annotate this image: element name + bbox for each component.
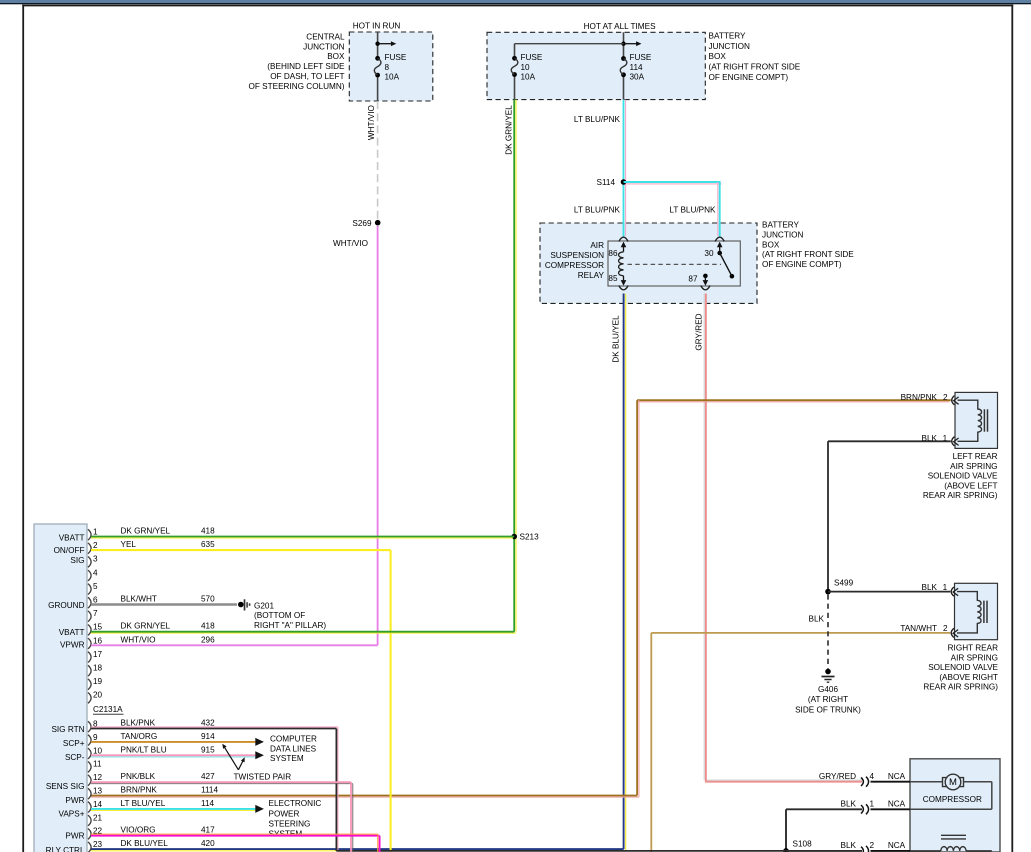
svg-text:4: 4 (870, 772, 875, 781)
compressor winding core lines (941, 834, 966, 836)
pin 10 (88, 748, 91, 759)
svg-text:STEERING: STEERING (269, 819, 311, 828)
arrow: BJB feed to other circuits (624, 43, 637, 45)
right rear air spring solenoid valve box (955, 583, 998, 639)
relay coil winding (619, 252, 624, 276)
module connector block C2131A (left) (34, 524, 87, 852)
svg-text:296: 296 (201, 635, 215, 644)
wire YEL vertical to bottom (390, 550, 392, 852)
pin 7 (88, 611, 91, 622)
svg-text:2: 2 (943, 393, 948, 402)
compressor winding (bottom) (910, 850, 941, 852)
arrow to electronic power steering (255, 805, 264, 813)
svg-text:VBATT: VBATT (59, 628, 85, 637)
svg-text:YEL: YEL (121, 540, 137, 549)
svg-text:BOX: BOX (327, 52, 345, 61)
svg-text:LEFT REAR: LEFT REAR (953, 452, 998, 461)
wire BLK LR valve pin1 to S499 branch (828, 440, 951, 442)
svg-text:SOLENOID VALVE: SOLENOID VALVE (928, 663, 998, 672)
wire TAN/ORG row 9 (91, 741, 255, 743)
twisted pair annotation (224, 746, 239, 770)
svg-text:BATTERY: BATTERY (762, 221, 800, 230)
svg-text:15: 15 (93, 623, 103, 632)
pin 16 (88, 638, 91, 649)
battery junction box (relay) dashed box (540, 223, 757, 303)
svg-text:11: 11 (93, 760, 102, 769)
relay connector arc pin 30 (715, 237, 724, 241)
svg-text:BLK: BLK (841, 841, 857, 850)
svg-text:LT BLU/PNK: LT BLU/PNK (574, 115, 621, 124)
svg-text:BLK: BLK (809, 614, 825, 623)
wire: BJB feed vertical (fuse 114) (623, 32, 625, 58)
svg-text:2: 2 (870, 841, 875, 850)
svg-text:4: 4 (93, 568, 98, 577)
svg-text:2: 2 (943, 624, 948, 633)
svg-text:POWER: POWER (269, 809, 300, 818)
pin 5 (88, 584, 91, 595)
svg-text:WHT/VIO: WHT/VIO (333, 239, 368, 248)
wire: BJB horizontal feed to fuse 10 (515, 43, 624, 45)
wire WHT/VIO row 16 (91, 644, 378, 646)
wire: fuse 10 vertical (514, 44, 516, 59)
wire VIO/ORG vertical (377, 834, 379, 852)
RR valve pin 2 connector arc (951, 628, 954, 637)
wire BRN/PNK vertical to row 13 (638, 400, 640, 797)
top toolbar bar (0, 0, 1031, 3)
svg-text:BRN/PNK: BRN/PNK (901, 393, 938, 402)
svg-text:(BEHIND LEFT SIDE: (BEHIND LEFT SIDE (267, 62, 345, 71)
fuse F114 30A (621, 56, 626, 61)
svg-text:FUSE: FUSE (385, 53, 407, 62)
svg-text:SCP+: SCP+ (63, 739, 85, 748)
pin 20 (88, 693, 91, 704)
fuse F10 10A (512, 56, 517, 61)
svg-text:ELECTRONIC: ELECTRONIC (269, 799, 322, 808)
svg-text:COMPRESSOR: COMPRESSOR (545, 261, 604, 270)
compressor motor wiring loop (910, 781, 943, 783)
relay coil arrow up (pin 86) (623, 247, 625, 252)
wire TAN/WHT RR valve pin 2 (651, 632, 950, 634)
svg-text:OF ENGINE COMPT): OF ENGINE COMPT) (709, 73, 789, 82)
svg-text:REAR AIR SPRING): REAR AIR SPRING) (923, 491, 998, 500)
svg-text:OF ENGINE COMPT): OF ENGINE COMPT) (762, 260, 842, 269)
svg-text:RIGHT REAR: RIGHT REAR (948, 644, 998, 653)
svg-text:VBATT: VBATT (59, 534, 85, 543)
svg-text:REAR AIR SPRING): REAR AIR SPRING) (923, 683, 998, 692)
wire DK BLU/YEL vertical relay to row 23 (625, 294, 627, 851)
pin 15 (88, 625, 91, 636)
svg-text:PNK/LT BLU: PNK/LT BLU (121, 745, 167, 754)
svg-text:JUNCTION: JUNCTION (709, 42, 750, 51)
svg-text:6: 6 (93, 596, 98, 605)
svg-text:VAPS+: VAPS+ (58, 810, 84, 819)
svg-text:14: 14 (93, 800, 103, 809)
svg-text:SOLENOID VALVE: SOLENOID VALVE (928, 472, 998, 481)
node: CJB tap junction (375, 42, 379, 46)
svg-text:DATA LINES: DATA LINES (270, 744, 317, 753)
svg-text:1: 1 (943, 434, 948, 443)
svg-text:FUSE: FUSE (521, 53, 543, 62)
svg-text:NCA: NCA (888, 841, 906, 850)
node: BJB tap junction (621, 42, 625, 46)
relay inner box (608, 241, 740, 286)
svg-text:570: 570 (201, 595, 215, 604)
pin 12 (88, 775, 91, 786)
pin 2 (88, 543, 91, 554)
pin 6 (88, 597, 91, 608)
wire BLK dashed to G406 (827, 594, 829, 668)
wire PNK/BLK vertical (352, 784, 354, 852)
svg-text:SCP-: SCP- (65, 753, 85, 762)
svg-text:BLK: BLK (922, 434, 938, 443)
left rear air spring solenoid valve box (955, 392, 998, 448)
svg-text:(AT RIGHT FRONT SIDE: (AT RIGHT FRONT SIDE (709, 63, 801, 72)
splice S108 (783, 848, 789, 852)
svg-text:BLK: BLK (841, 800, 857, 809)
arrow to computer data lines (255, 738, 264, 746)
svg-text:LT BLU/YEL: LT BLU/YEL (121, 799, 166, 808)
svg-text:18: 18 (93, 664, 103, 673)
svg-text:TAN/WHT: TAN/WHT (900, 624, 937, 633)
central junction box (CJB) dashed box (349, 32, 433, 101)
svg-text:7: 7 (93, 609, 98, 618)
LR valve pin 1 connector arc (952, 437, 955, 446)
ground G201 symbol (238, 602, 244, 608)
ground G406 symbol (825, 669, 831, 675)
pin 1 (88, 529, 91, 540)
svg-text:BLK/WHT: BLK/WHT (121, 595, 157, 604)
wire BLK/PNK row 8 (91, 726, 338, 728)
svg-text:BLK: BLK (922, 583, 938, 592)
wire BLK/PNK vertical (337, 727, 339, 850)
arrow to computer data lines (2) (255, 751, 264, 759)
pin 19 (88, 679, 91, 690)
wire GRY/RED horizontal to compressor pin 4 (707, 779, 862, 781)
wire BRN/PNK horizontal row 13 (91, 796, 639, 798)
svg-text:(ABOVE LEFT: (ABOVE LEFT (944, 481, 997, 490)
relay internal dashed link (628, 263, 722, 265)
svg-text:8: 8 (385, 63, 390, 72)
svg-text:17: 17 (93, 650, 103, 659)
svg-text:635: 635 (201, 540, 215, 549)
connector C pin 1 (NCA) (861, 804, 869, 814)
wire DK GRN/YEL row 15 (91, 632, 516, 634)
connector C pin 2 (NCA) (861, 846, 869, 852)
pin 17 (88, 652, 91, 663)
svg-text:23: 23 (93, 840, 103, 849)
battery junction box (fuse box) dashed box (487, 32, 705, 99)
relay switch arrow up to pin 30 (719, 247, 721, 253)
wire DK GRN/YEL vertical (fuse 10 to S213 to pin 15) (515, 100, 517, 632)
svg-text:GRY/RED: GRY/RED (819, 772, 856, 781)
wire BLK vertical to S499 (827, 441, 829, 591)
svg-text:NCA: NCA (888, 772, 906, 781)
svg-text:VIO/ORG: VIO/ORG (121, 826, 156, 835)
wire DK GRN/YEL row 1 (91, 537, 513, 539)
svg-text:418: 418 (201, 622, 215, 631)
wire WHT/VIO solid violet vertical to pin 16 (377, 226, 379, 645)
wire VIO/ORG row 22 (91, 833, 378, 835)
svg-text:S213: S213 (520, 533, 540, 542)
svg-text:COMPRESSOR: COMPRESSOR (923, 795, 982, 804)
svg-text:10: 10 (521, 63, 531, 72)
svg-text:SIDE OF TRUNK): SIDE OF TRUNK) (795, 705, 861, 714)
pin 8 (88, 721, 91, 732)
svg-text:SUSPENSION: SUSPENSION (550, 251, 604, 260)
svg-text:5: 5 (93, 582, 98, 591)
svg-text:FUSE: FUSE (630, 53, 652, 62)
wire BLK S499 to RR valve pin 1 (828, 591, 950, 593)
svg-text:GROUND: GROUND (48, 601, 84, 610)
wire LT BLU/PNK vertical (fuse 114 to S114 to relay 86) (625, 100, 627, 236)
relay connector arc pin 86 (619, 237, 628, 241)
svg-text:DK GRN/YEL: DK GRN/YEL (505, 105, 514, 155)
svg-text:9: 9 (93, 733, 98, 742)
LR valve coil (958, 400, 982, 441)
svg-text:RIGHT "A" PILLAR): RIGHT "A" PILLAR) (254, 621, 326, 630)
svg-text:OF DASH, TO LEFT: OF DASH, TO LEFT (270, 72, 344, 81)
svg-text:PNK/BLK: PNK/BLK (121, 772, 156, 781)
wire GRY/RED vertical relay to compressor (703, 294, 705, 781)
relay switch arm pin 30 (717, 251, 722, 256)
svg-text:1: 1 (93, 528, 98, 537)
svg-text:JUNCTION: JUNCTION (762, 231, 803, 240)
page frame border (22, 5, 24, 852)
svg-text:S108: S108 (793, 840, 813, 849)
svg-text:TWISTED PAIR: TWISTED PAIR (234, 773, 292, 782)
compressor motor symbol (945, 774, 961, 790)
svg-text:VPWR: VPWR (60, 641, 85, 650)
svg-text:87: 87 (688, 275, 698, 284)
wire TAN/WHT vertical to bottom (650, 633, 652, 852)
svg-text:DK GRN/YEL: DK GRN/YEL (121, 622, 171, 631)
svg-text:S499: S499 (834, 579, 854, 588)
pin 3 (88, 557, 91, 568)
svg-text:AIR SPRING: AIR SPRING (951, 653, 998, 662)
pin 14 (88, 802, 91, 813)
svg-text:LT BLU/PNK: LT BLU/PNK (669, 206, 716, 215)
svg-text:BATTERY: BATTERY (709, 32, 747, 41)
relay connector arc pin 85 (619, 286, 628, 290)
svg-text:WHT/VIO: WHT/VIO (367, 105, 376, 140)
svg-text:DK GRN/YEL: DK GRN/YEL (121, 527, 171, 536)
splice S114 (621, 179, 627, 185)
svg-text:SENS SIG: SENS SIG (46, 782, 85, 791)
svg-text:85: 85 (608, 274, 618, 283)
svg-text:DK BLU/YEL: DK BLU/YEL (121, 839, 169, 848)
svg-text:914: 914 (201, 732, 215, 741)
svg-text:COMPUTER: COMPUTER (270, 735, 317, 744)
svg-text:RLY CTRL: RLY CTRL (46, 846, 85, 852)
pin 9 (88, 735, 91, 746)
svg-text:TAN/ORG: TAN/ORG (121, 732, 158, 741)
svg-text:G201: G201 (254, 601, 274, 610)
svg-text:SIG: SIG (70, 556, 84, 565)
svg-text:BOX: BOX (762, 240, 780, 249)
connector C pin 4 (NCA) (861, 777, 869, 787)
svg-text:418: 418 (201, 527, 215, 536)
wire PNK/LT BLU row 10 (91, 756, 255, 758)
svg-text:427: 427 (201, 772, 215, 781)
RR valve pin 1 connector arc (951, 587, 954, 596)
svg-text:BLK/PNK: BLK/PNK (121, 719, 156, 728)
pin 4 (88, 570, 91, 581)
svg-text:LT BLU/PNK: LT BLU/PNK (574, 206, 621, 215)
wire: CJB feed vertical (377, 32, 379, 58)
pin 23 (88, 842, 91, 852)
arrow: CJB feed to other circuits (378, 43, 392, 45)
svg-text:SYSTEM: SYSTEM (270, 754, 304, 763)
svg-text:30A: 30A (630, 73, 645, 82)
svg-text:PWR: PWR (65, 796, 84, 805)
svg-text:3: 3 (93, 555, 98, 564)
RR valve coil (957, 592, 981, 633)
svg-text:13: 13 (93, 787, 103, 796)
svg-text:ON/OFF: ON/OFF (54, 546, 85, 555)
svg-text:1: 1 (943, 583, 948, 592)
svg-text:BOX: BOX (709, 52, 727, 61)
wire WHT/VIO dashed (white) segment (377, 101, 379, 219)
svg-text:OF STEERING COLUMN): OF STEERING COLUMN) (249, 82, 345, 91)
svg-text:PWR: PWR (65, 831, 84, 840)
wire PNK/BLK row 12 (91, 783, 353, 785)
fuse F8 10A (375, 56, 380, 61)
wire LT BLU/PNK horizontal S114 to right branch (626, 183, 722, 185)
relay pin 87 contact (703, 274, 708, 279)
svg-text:10A: 10A (521, 73, 536, 82)
svg-text:432: 432 (201, 719, 215, 728)
svg-text:420: 420 (201, 839, 215, 848)
svg-text:S269: S269 (352, 219, 372, 228)
svg-text:G406: G406 (818, 685, 838, 694)
svg-text:19: 19 (93, 677, 103, 686)
svg-text:HOT IN RUN: HOT IN RUN (353, 22, 401, 31)
svg-text:AIR: AIR (590, 241, 604, 250)
wire LT BLU/YEL row 14 (91, 809, 255, 811)
svg-text:M: M (949, 777, 957, 788)
svg-text:SIG RTN: SIG RTN (51, 725, 84, 734)
LR valve pin 2 connector arc (952, 396, 955, 405)
svg-text:CENTRAL: CENTRAL (306, 32, 345, 41)
svg-text:DK BLU/YEL: DK BLU/YEL (612, 315, 621, 363)
svg-text:417: 417 (201, 826, 215, 835)
svg-text:HOT AT ALL TIMES: HOT AT ALL TIMES (584, 22, 656, 31)
svg-text:RELAY: RELAY (578, 271, 605, 280)
splice S213 (511, 534, 517, 540)
svg-text:10A: 10A (385, 73, 400, 82)
pin 18 (88, 665, 91, 676)
wire LT BLU/PNK vertical right branch to relay 30 (717, 182, 719, 236)
wire YEL row 2 (91, 549, 391, 551)
svg-text:21: 21 (93, 813, 103, 822)
svg-text:(BOTTOM OF: (BOTTOM OF (254, 611, 305, 620)
pin 21 (88, 815, 91, 826)
svg-text:16: 16 (93, 636, 103, 645)
pin 11 (88, 762, 91, 773)
relay coil arrow down (pin 85) (623, 276, 625, 281)
svg-text:WHT/VIO: WHT/VIO (121, 635, 156, 644)
svg-text:114: 114 (630, 63, 643, 72)
svg-text:10: 10 (93, 746, 103, 755)
splice S499 (825, 589, 831, 595)
svg-text:86: 86 (608, 249, 618, 258)
pin 13 (88, 788, 91, 799)
svg-text:AIR SPRING: AIR SPRING (950, 462, 997, 471)
wire BLK/WHT row 6 to G201 (91, 603, 237, 605)
svg-text:30: 30 (704, 249, 714, 258)
svg-text:12: 12 (93, 773, 103, 782)
wire BLK S108 to compressor pin 2 (786, 850, 862, 852)
svg-text:S114: S114 (596, 178, 615, 187)
compressor box (910, 759, 1000, 852)
wire BLK/PNK bottom run to S108 (336, 850, 786, 852)
splice S269 (375, 220, 381, 226)
wire BLK compressor pin 1 to S108 (786, 808, 862, 810)
svg-text:915: 915 (201, 745, 215, 754)
relay connector arc pin 87 (701, 286, 710, 290)
svg-text:1: 1 (870, 800, 875, 809)
svg-text:NCA: NCA (888, 800, 906, 809)
svg-text:(AT RIGHT FRONT SIDE: (AT RIGHT FRONT SIDE (762, 250, 854, 259)
svg-text:20: 20 (93, 691, 103, 700)
svg-text:1114: 1114 (201, 786, 218, 795)
svg-text:114: 114 (201, 799, 214, 808)
svg-text:C2131A: C2131A (93, 705, 123, 714)
svg-text:JUNCTION: JUNCTION (303, 42, 344, 51)
wire BRN/PNK horizontal to LR valve pin 2 (637, 401, 950, 403)
wire DK BLU/YEL horizontal row 23 (91, 850, 626, 852)
svg-text:2: 2 (93, 541, 98, 550)
svg-text:GRY/RED: GRY/RED (695, 313, 704, 350)
pin 22 (88, 829, 91, 840)
svg-text:(AT RIGHT: (AT RIGHT (808, 695, 848, 704)
svg-text:BRN/PNK: BRN/PNK (121, 786, 158, 795)
svg-text:(ABOVE RIGHT: (ABOVE RIGHT (939, 673, 998, 682)
